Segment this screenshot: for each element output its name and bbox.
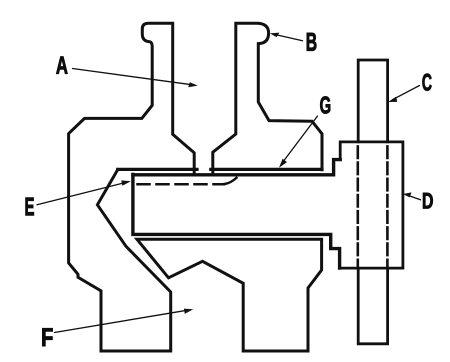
- taper relief curve joining hidden line to horn top: [225, 178, 237, 184]
- arrowheads: [121, 33, 411, 314]
- leader lines: [37, 35, 421, 333]
- rod C hidden left edge inside block D (dashed): [356, 146, 359, 267]
- horn bar top edge, step up into block D: [133, 160, 340, 175]
- vertical rod C: upper solid part: [358, 60, 387, 142]
- label A: [56, 57, 67, 74]
- leader E: [37, 182, 126, 204]
- label C: [422, 74, 431, 91]
- left clamp body with stem A and foot F: [69, 23, 195, 351]
- leader D: [408, 195, 421, 200]
- label D: [423, 193, 433, 208]
- arrowhead C: [388, 97, 397, 102]
- label G: [320, 97, 330, 114]
- arrowhead A: [188, 82, 198, 87]
- leader C: [393, 86, 420, 100]
- right stem B with flare: [213, 23, 322, 174]
- arrowhead B: [270, 33, 280, 38]
- hidden horn top edge (dashed): [138, 183, 225, 186]
- vertical rod C: lower solid part: [358, 268, 387, 344]
- leader F: [55, 310, 188, 332]
- label F: [42, 328, 52, 346]
- leader B: [276, 35, 303, 41]
- arrowhead F: [184, 309, 193, 314]
- top surface line of lower body (left of slot): [118, 168, 197, 171]
- arrowhead G: [279, 159, 287, 168]
- horizontal horn bar E: left end, bottom edge, step into block D: [133, 175, 340, 269]
- label B: [307, 33, 317, 51]
- leader A: [73, 69, 192, 85]
- block D outline: [340, 142, 403, 268]
- top surface line of lower body (right of slot): [211, 168, 322, 171]
- arrowhead D: [403, 192, 412, 197]
- bottom anvil block: [137, 239, 322, 351]
- rod C hidden right edge inside block D (dashed): [386, 146, 389, 267]
- arrowhead E: [121, 180, 131, 185]
- leader G: [281, 116, 318, 165]
- label E: [25, 198, 33, 215]
